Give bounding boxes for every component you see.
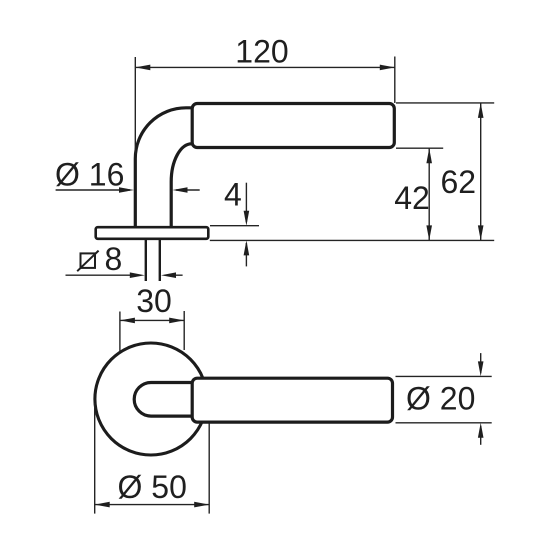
square section symbol for dim 8 xyxy=(77,251,98,272)
dim 30: right arrowhead xyxy=(169,318,184,324)
dim 62: bottom arrowhead xyxy=(478,225,484,240)
dim O16: right arrowhead xyxy=(173,187,188,193)
svg-text:Ø 16: Ø 16 xyxy=(55,156,124,192)
side view: outer bend curve and stem left edge xyxy=(135,108,195,228)
dim 30: right extension line xyxy=(183,311,185,350)
svg-text:30: 30 xyxy=(136,283,172,319)
svg-text:62: 62 xyxy=(441,164,477,200)
dim O20: upper arrowhead xyxy=(478,361,484,376)
dim 30: dimension line xyxy=(120,319,184,321)
dim 30: left extension line xyxy=(119,312,121,352)
dim 4: upper dimension line xyxy=(245,183,247,222)
dim O50: left arrowhead xyxy=(95,502,110,508)
svg-text:Ø 20: Ø 20 xyxy=(406,381,475,417)
dim 120: right arrowhead xyxy=(380,65,395,71)
dim O20: top extension line xyxy=(396,375,492,377)
dim O16: right leader line xyxy=(176,189,200,191)
dim 62: dimension line xyxy=(480,103,482,241)
front view: rose circle xyxy=(95,343,207,455)
side view: rose plate xyxy=(96,227,209,239)
dim 120: left extension line xyxy=(134,57,136,154)
dim square8: left arrowhead xyxy=(130,272,145,278)
front view: handle neck with round cap xyxy=(134,383,192,417)
dim 30: left arrowhead xyxy=(120,318,135,324)
dim O20: lower arrowhead xyxy=(478,423,484,438)
svg-text:Ø 50: Ø 50 xyxy=(118,469,187,505)
svg-text:4: 4 xyxy=(224,177,242,213)
dim 42: dimension line xyxy=(428,148,430,240)
dim O50: left extension line xyxy=(94,403,96,514)
dim 120: right extension line xyxy=(394,57,396,104)
dim square8: left leader line xyxy=(66,274,142,276)
dim 4: lower dimension line xyxy=(245,243,247,266)
svg-text:42: 42 xyxy=(394,180,430,216)
dim 42: bottom arrowhead xyxy=(426,225,432,240)
dim square8: right leader line xyxy=(165,274,183,276)
dim 120: left arrowhead xyxy=(135,65,150,71)
dim O16: left leader line xyxy=(56,189,130,191)
svg-text:120: 120 xyxy=(235,34,288,70)
dim 62: top arrowhead xyxy=(478,103,484,118)
dim O20: bottom extension line xyxy=(396,422,492,424)
side view: inner bend curve and stem right edge xyxy=(171,144,194,228)
side view: square spindle right line xyxy=(159,240,161,281)
dim 120: dimension line xyxy=(135,66,395,68)
dim O20: upper dimension line xyxy=(480,353,482,373)
svg-text:8: 8 xyxy=(105,241,123,277)
dim square8: right arrowhead xyxy=(161,272,176,278)
dim 4: upper arrowhead xyxy=(244,211,250,226)
dim 62: grip top extension line xyxy=(396,102,494,104)
dim O50: right arrowhead xyxy=(194,502,209,508)
dim O16: left arrowhead xyxy=(119,187,134,193)
dim O20: lower dimension line xyxy=(480,426,482,445)
dim O50: dimension line xyxy=(95,504,210,506)
bottom reference line from rose plate xyxy=(210,239,494,241)
dim 4: plate top extension line xyxy=(210,225,259,227)
dim 42: top arrowhead xyxy=(426,148,432,163)
side view: lever grip tube xyxy=(192,104,394,148)
front view: lever grip tube xyxy=(192,378,392,422)
side view: square spindle left line xyxy=(145,240,147,281)
dim O50: right extension line xyxy=(208,424,210,514)
dim 4: lower arrowhead xyxy=(244,240,250,255)
dim 42: grip bottom extension line xyxy=(396,147,443,149)
